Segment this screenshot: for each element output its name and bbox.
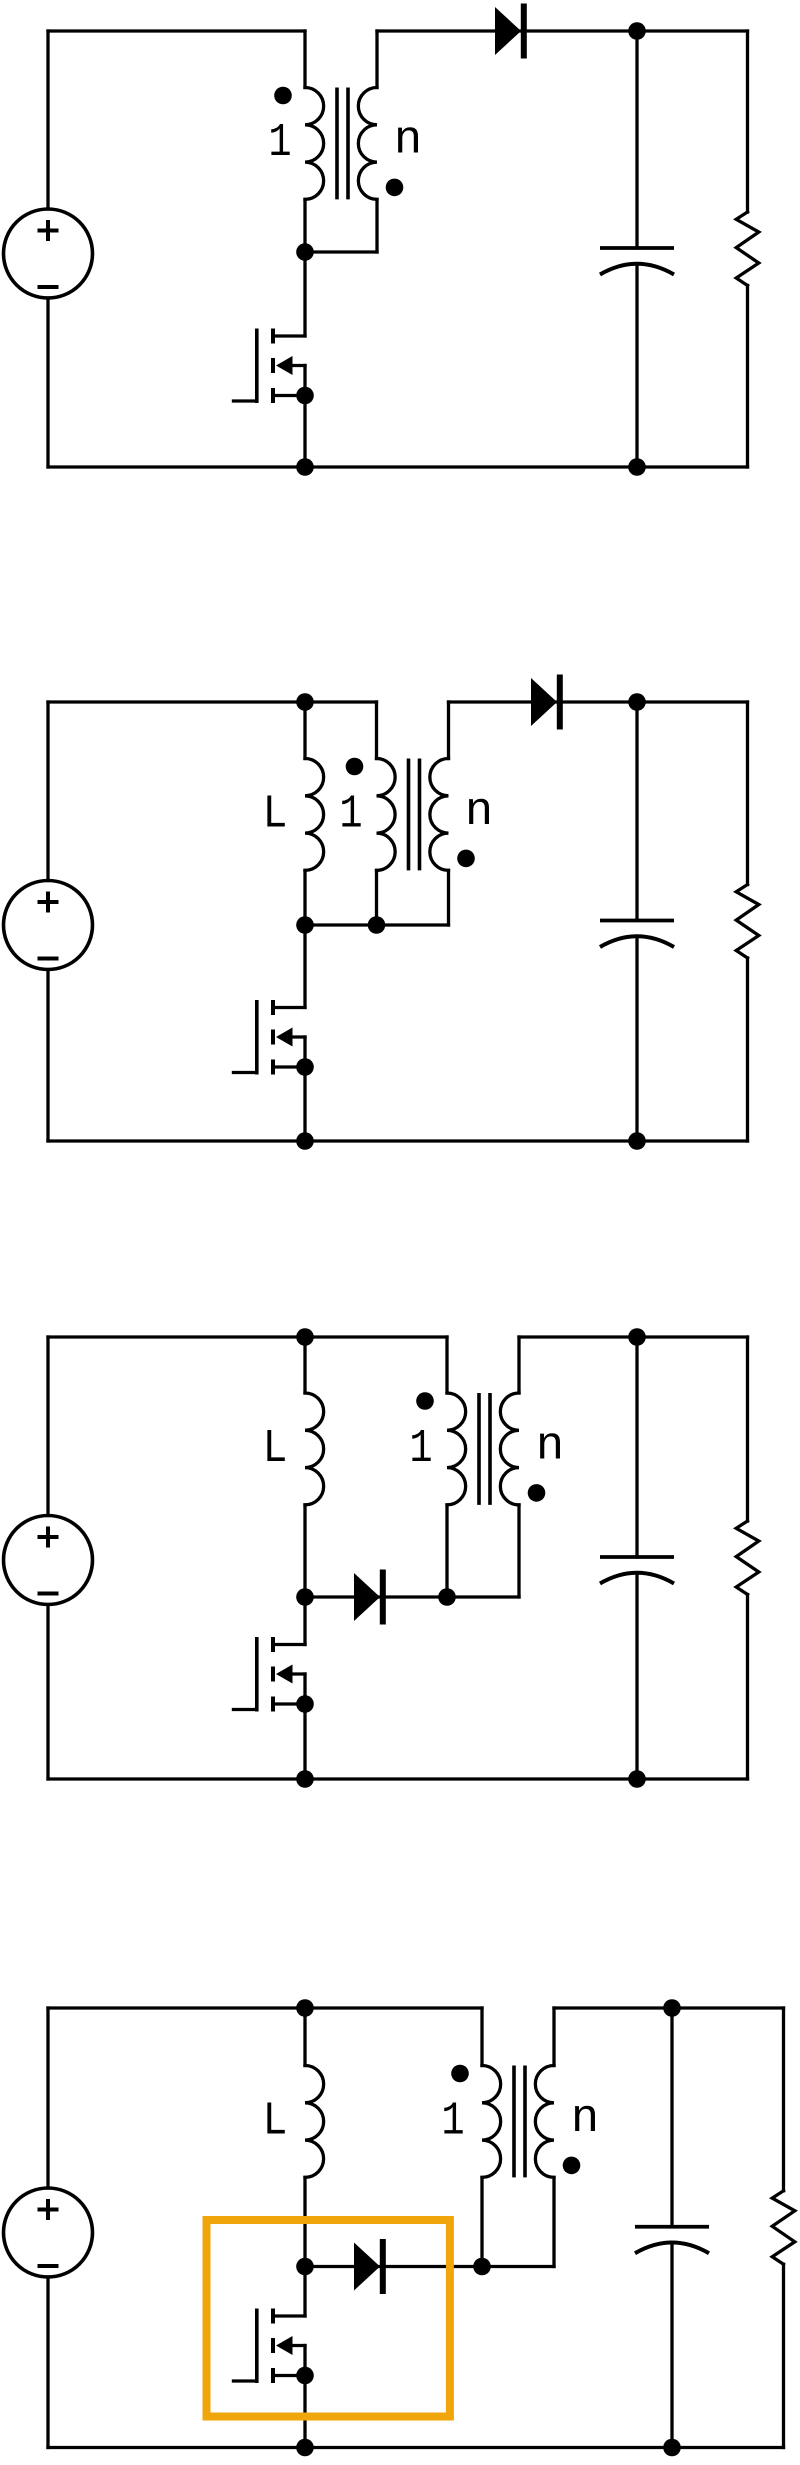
node inductor top bbox=[296, 1328, 314, 1346]
capacitor C1 bbox=[600, 248, 674, 275]
node bottom output bbox=[628, 1132, 646, 1150]
wire inductor bottom lead bbox=[303, 870, 306, 925]
voltage source V1 bbox=[4, 209, 93, 298]
wire source to rail bbox=[303, 2376, 306, 2448]
transformer T3 core bbox=[477, 1393, 481, 1505]
wire top rail left bbox=[48, 1335, 447, 1338]
wire capacitor bottom lead bbox=[635, 264, 638, 467]
polarity dot primary bbox=[346, 758, 364, 776]
label 1 bbox=[412, 1430, 430, 1461]
wire right rail top bbox=[746, 1337, 749, 1521]
wire secondary bottom lead bbox=[552, 2177, 555, 2266]
wire top rail left bbox=[48, 2006, 482, 2009]
label n (secondary turns) bbox=[398, 127, 418, 152]
wire drain bbox=[303, 925, 306, 1008]
node source junction bbox=[296, 387, 314, 405]
polarity dot primary bbox=[416, 1392, 434, 1410]
voltage source V4 bbox=[4, 2188, 93, 2277]
wire secondary top lead bbox=[447, 702, 450, 759]
MOSFET Q3 bbox=[232, 1637, 305, 1712]
node bottom left bbox=[296, 2439, 314, 2457]
wire bottom rail bbox=[48, 465, 748, 468]
node mid left bbox=[296, 2258, 314, 2276]
wire primary bottom lead bbox=[480, 2177, 483, 2266]
label L bbox=[267, 796, 284, 827]
diode D3 bbox=[354, 1570, 386, 1625]
MOSFET Q4 bbox=[232, 2309, 305, 2384]
node primary bottom bbox=[368, 916, 386, 934]
wire capacitor top lead bbox=[635, 1337, 638, 1557]
label 1 bbox=[342, 796, 360, 827]
wire secondary bottom lead bbox=[447, 870, 450, 925]
wire inductor top lead bbox=[303, 1337, 306, 1393]
transformer T2 primary winding bbox=[377, 759, 396, 871]
wire left rail bottom bbox=[46, 2277, 49, 2448]
wire right rail bottom bbox=[782, 2264, 785, 2447]
circuit 3: two-switch variant with diode to primary bbox=[4, 1328, 759, 1788]
wire top rail left bbox=[48, 700, 377, 703]
node bottom left bbox=[296, 1770, 314, 1788]
wire primary top lead bbox=[375, 702, 378, 759]
wire secondary bottom lead bbox=[375, 199, 378, 252]
wire left rail top bbox=[46, 1337, 49, 1516]
polarity dot secondary bbox=[386, 179, 404, 197]
transformer T3 primary winding bbox=[447, 1393, 466, 1505]
node bottom output bbox=[628, 1770, 646, 1788]
node bottom output bbox=[628, 458, 646, 476]
label L bbox=[267, 1430, 284, 1461]
wire capacitor bottom lead bbox=[670, 2243, 673, 2448]
wire primary top lead bbox=[445, 1337, 448, 1393]
node mid left bbox=[296, 1588, 314, 1606]
transformer T4 secondary winding bbox=[535, 2066, 554, 2178]
label 1 (primary turns) bbox=[271, 124, 289, 155]
circuit 2: flyback with input inductor bbox=[4, 675, 759, 1150]
node bottom output bbox=[663, 2439, 681, 2457]
circuit 4: variant with highlighted switch cell bbox=[4, 1999, 795, 2456]
polarity dot primary bbox=[451, 2065, 469, 2083]
node output top bbox=[628, 1328, 646, 1346]
node primary bottom bbox=[473, 2258, 491, 2276]
inductor L bbox=[305, 1393, 324, 1505]
wire bottom rail bbox=[48, 2446, 784, 2449]
wire left rail bottom bbox=[46, 1605, 49, 1780]
transformer T2 secondary winding bbox=[430, 759, 449, 871]
wire top rail left bbox=[48, 29, 305, 32]
wire drain bbox=[303, 252, 306, 336]
capacitor C4 bbox=[635, 2227, 709, 2254]
wire capacitor top lead bbox=[635, 702, 638, 921]
wire bottom rail bbox=[48, 1777, 748, 1780]
label n bbox=[469, 799, 489, 824]
node bottom left bbox=[296, 458, 314, 476]
wire secondary top lead bbox=[552, 2008, 555, 2066]
wire primary top lead bbox=[303, 31, 306, 88]
polarity dot secondary bbox=[457, 850, 475, 868]
label L bbox=[267, 2103, 284, 2134]
voltage source V2 bbox=[4, 881, 93, 970]
node drain/primary junction bbox=[296, 243, 314, 261]
wire primary bottom lead bbox=[445, 1505, 448, 1597]
wire primary top lead bbox=[480, 2008, 483, 2066]
diode D4 bbox=[354, 2239, 386, 2294]
wire top rail right bbox=[554, 2006, 784, 2009]
wire top rail right bbox=[449, 700, 748, 703]
node output top bbox=[628, 22, 646, 40]
node link left bbox=[296, 916, 314, 934]
wire source to rail bbox=[303, 1704, 306, 1779]
wire capacitor top lead bbox=[670, 2008, 673, 2227]
wire right rail bottom bbox=[746, 958, 749, 1141]
node output top bbox=[628, 693, 646, 711]
polarity dot secondary bbox=[528, 1484, 546, 1502]
label n bbox=[540, 1433, 560, 1458]
wire bottom link bbox=[305, 923, 449, 926]
wire inductor top lead bbox=[303, 702, 306, 759]
MOSFET Q1 bbox=[232, 329, 305, 404]
wire drain bbox=[303, 1597, 306, 1645]
diode D1 bbox=[495, 4, 527, 59]
node source junction bbox=[296, 1058, 314, 1076]
wire mid link bbox=[305, 2265, 554, 2268]
label 1 bbox=[444, 2103, 462, 2134]
wire secondary top lead bbox=[517, 1337, 520, 1393]
wire top rail right bbox=[519, 1335, 748, 1338]
wire left rail bottom bbox=[46, 970, 49, 1142]
wire left rail top bbox=[46, 2008, 49, 2188]
inductor L bbox=[305, 759, 324, 871]
transformer T1 secondary winding bbox=[358, 88, 377, 200]
resistor R2 (load) bbox=[736, 885, 759, 959]
resistor R1 (load) bbox=[736, 212, 759, 286]
transformer T3 secondary winding bbox=[500, 1393, 519, 1505]
MOSFET Q2 bbox=[232, 1000, 305, 1075]
inductor L bbox=[305, 2066, 324, 2178]
node primary bottom bbox=[438, 1588, 456, 1606]
resistor R4 (load) bbox=[772, 2191, 795, 2264]
voltage source V3 bbox=[4, 1516, 93, 1605]
wire secondary bottom lead bbox=[517, 1505, 520, 1597]
wire inductor bottom lead bbox=[303, 2177, 306, 2266]
wire right rail top bbox=[746, 31, 749, 212]
node source junction bbox=[296, 1695, 314, 1713]
polarity dot primary bbox=[274, 87, 292, 105]
resistor R3 (load) bbox=[736, 1521, 759, 1595]
node bottom left bbox=[296, 1132, 314, 1150]
polarity dot secondary bbox=[563, 2157, 581, 2175]
wire source to rail bbox=[303, 1067, 306, 1141]
wire primary bottom lead bbox=[303, 199, 306, 252]
transformer T4 core bbox=[512, 2066, 516, 2178]
node inductor top bbox=[296, 693, 314, 711]
wire bottom rail bbox=[48, 1139, 748, 1142]
wire inductor top lead bbox=[303, 2008, 306, 2066]
transformer T1 primary winding bbox=[305, 88, 324, 200]
diode D2 bbox=[531, 675, 563, 730]
capacitor C3 bbox=[600, 1557, 674, 1584]
wire right rail bottom bbox=[746, 286, 749, 468]
transformer T4 primary winding bbox=[482, 2066, 501, 2178]
wire primary bottom lead bbox=[375, 870, 378, 925]
wire left rail top bbox=[46, 31, 49, 209]
node output top bbox=[663, 1999, 681, 2017]
wire primary-secondary bottom link bbox=[305, 250, 377, 253]
capacitor C2 bbox=[600, 921, 674, 948]
wire right rail bottom bbox=[746, 1595, 749, 1780]
node inductor top bbox=[296, 1999, 314, 2017]
highlight box (orange) bbox=[207, 2220, 450, 2417]
wire mid link bbox=[305, 1595, 519, 1598]
label n bbox=[575, 2106, 595, 2131]
transformer T1 core bbox=[335, 88, 339, 200]
wire secondary top lead bbox=[375, 31, 378, 88]
wire source to ground rail bbox=[303, 396, 306, 468]
wire left rail bottom bbox=[46, 298, 49, 467]
wire inductor bottom lead bbox=[303, 1505, 306, 1597]
wire drain bbox=[303, 2267, 306, 2317]
wire capacitor bottom lead bbox=[635, 1573, 638, 1779]
wire capacitor top lead bbox=[635, 31, 638, 248]
wire top rail right bbox=[377, 29, 748, 32]
wire right rail top bbox=[746, 702, 749, 885]
wire right rail top bbox=[782, 2008, 785, 2191]
circuit 1: flyback converter bbox=[4, 4, 759, 476]
wire capacitor bottom lead bbox=[635, 937, 638, 1142]
transformer T2 core bbox=[407, 759, 411, 871]
wire left rail top bbox=[46, 702, 49, 881]
node source junction bbox=[296, 2367, 314, 2385]
